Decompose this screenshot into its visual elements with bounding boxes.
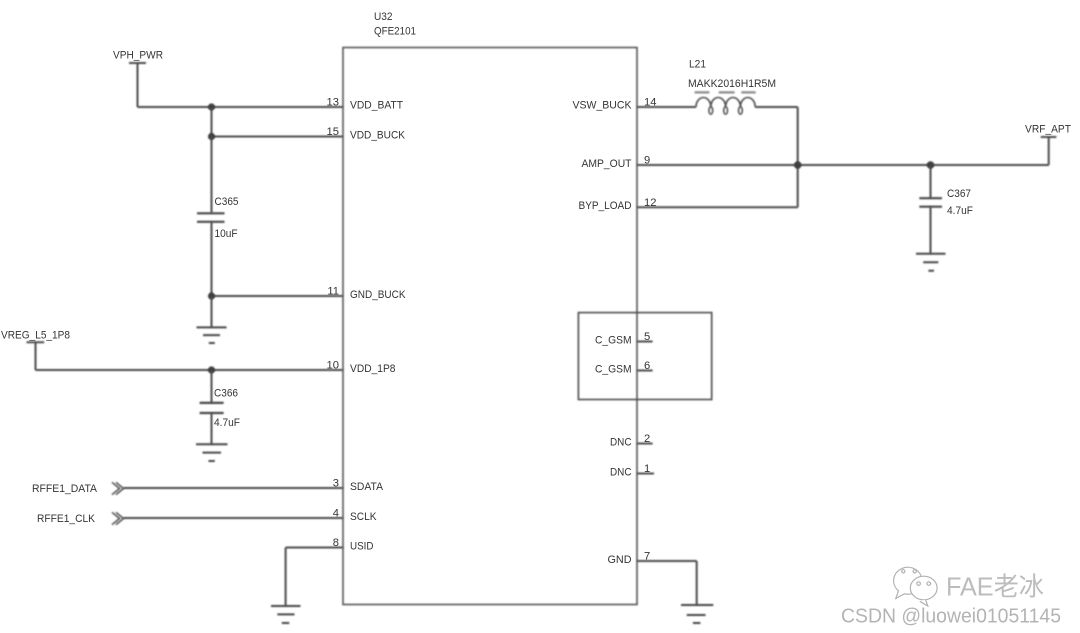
wire RFFE1_CLK to pin 4 SCLK	[124, 517, 344, 519]
wire RFFE1_DATA to pin 3 SDATA	[124, 487, 344, 489]
svg-text:9: 9	[644, 155, 650, 167]
wire pin 8 USID to ground	[286, 548, 343, 607]
svg-text:U32: U32	[374, 11, 393, 23]
svg-text:C367: C367	[947, 188, 971, 200]
capacitor C367	[919, 188, 973, 217]
wire pin 12 BYP_LOAD	[637, 206, 798, 208]
svg-text:USID: USID	[350, 541, 374, 553]
ground below C367	[916, 254, 946, 271]
pin number 5	[644, 331, 650, 343]
power flag VPH_PWR	[113, 50, 163, 108]
pin number 4	[333, 508, 339, 520]
pin name GND	[608, 554, 632, 566]
svg-text:C365: C365	[215, 196, 239, 208]
svg-text:VSW_BUCK: VSW_BUCK	[573, 100, 632, 112]
pin name VDD_BATT	[350, 100, 403, 112]
svg-text:15: 15	[327, 126, 339, 138]
C_GSM group box	[578, 313, 711, 400]
svg-text:MAKK2016H1R5M: MAKK2016H1R5M	[688, 78, 776, 90]
pin 6 C_GSM stub	[637, 370, 653, 372]
wire C365 to pin 11 GND_BUCK	[212, 222, 344, 296]
capacitor C365	[197, 196, 239, 240]
pin number 10	[327, 360, 339, 372]
capacitor C366	[200, 388, 241, 430]
wire pin 7 GND to ground	[637, 561, 697, 605]
pin name C_GSM pin6	[595, 364, 632, 376]
pin number 12	[644, 197, 656, 209]
svg-text:VDD_BUCK: VDD_BUCK	[350, 130, 405, 142]
pin number 15	[327, 126, 339, 138]
svg-text:2: 2	[644, 433, 650, 445]
svg-text:DNC: DNC	[610, 437, 632, 449]
svg-text:DNC: DNC	[610, 467, 632, 479]
svg-text:7: 7	[644, 551, 650, 563]
pin name GND_BUCK	[350, 289, 406, 301]
svg-text:AMP_OUT: AMP_OUT	[582, 158, 632, 170]
junction dot AMP_OUT / inductor	[794, 161, 802, 169]
pin name VDD_1P8	[350, 363, 396, 375]
svg-text:VDD_BATT: VDD_BATT	[350, 100, 403, 112]
net arrow RFFE1_DATA	[32, 482, 124, 495]
wire VPH_PWR to pin 13	[138, 106, 344, 108]
pin number 9	[644, 155, 650, 167]
power flag VRF_APT	[1025, 124, 1071, 166]
wire junction down to capacitor C366	[211, 370, 213, 403]
svg-text:12: 12	[644, 197, 656, 209]
svg-text:VPH_PWR: VPH_PWR	[113, 50, 163, 62]
wire C366 to ground	[211, 413, 213, 444]
wire VDD_BUCK down to capacitor C365	[211, 137, 213, 214]
watermark wechat icon	[894, 567, 937, 606]
junction dot AMP_OUT / C367	[927, 161, 935, 169]
ground below C366	[196, 444, 228, 461]
svg-text:CSDN @luowei01051145: CSDN @luowei01051145	[841, 605, 1061, 628]
svg-text:4.7uF: 4.7uF	[947, 205, 973, 217]
svg-text:VDD_1P8: VDD_1P8	[350, 363, 396, 375]
svg-text:5: 5	[644, 331, 650, 343]
pin 5 C_GSM stub	[637, 341, 653, 343]
pin number 3	[333, 478, 339, 490]
svg-text:1: 1	[644, 463, 650, 475]
pin name VSW_BUCK	[573, 100, 632, 112]
pin name BYP_LOAD	[579, 200, 632, 212]
pin number 14	[644, 97, 656, 109]
junction dot at GND_BUCK tap	[208, 292, 215, 299]
wire to pin 15 VDD_BUCK	[212, 107, 344, 137]
wire AMP_OUT down to capacitor C367	[930, 165, 932, 198]
svg-text:8: 8	[333, 537, 339, 549]
svg-text:BYP_LOAD: BYP_LOAD	[579, 200, 632, 212]
junction dot at VDD_BUCK tap	[208, 133, 215, 140]
svg-text:C_GSM: C_GSM	[595, 364, 632, 376]
svg-text:3: 3	[333, 478, 339, 490]
ground below GND pin	[681, 605, 713, 623]
svg-text:RFFE1_DATA: RFFE1_DATA	[32, 483, 97, 495]
ground below C365	[197, 327, 227, 343]
wire inductor to corner	[755, 107, 798, 207]
svg-text:SCLK: SCLK	[350, 511, 377, 523]
svg-text:13: 13	[327, 97, 339, 109]
pin name C_GSM pin5	[595, 335, 632, 347]
svg-text:FAE老冰: FAE老冰	[946, 572, 1044, 602]
svg-text:QFE2101: QFE2101	[374, 26, 416, 38]
pin number 13	[327, 97, 339, 109]
svg-text:14: 14	[644, 97, 656, 109]
pin 2 DNC stub	[637, 443, 653, 445]
wire C367 to ground	[930, 207, 932, 254]
wire VREG_L5_1P8 to pin 10 VDD_1P8	[36, 369, 344, 371]
pin name USID	[350, 541, 374, 553]
svg-text:10uF: 10uF	[215, 228, 238, 240]
svg-text:L21: L21	[689, 59, 706, 71]
svg-text:VRF_APT: VRF_APT	[1025, 124, 1071, 136]
svg-text:10: 10	[327, 360, 339, 372]
svg-text:4: 4	[333, 508, 339, 520]
pin name SDATA	[350, 481, 383, 493]
QFE2101 part value label	[374, 26, 416, 38]
svg-text:SDATA: SDATA	[350, 481, 383, 493]
pin number 6	[644, 360, 650, 372]
wire pin 14 VSW_BUCK to inductor	[637, 106, 696, 108]
ground below USID	[271, 606, 301, 623]
net arrow RFFE1_CLK	[37, 512, 124, 525]
svg-text:4.7uF: 4.7uF	[214, 417, 240, 429]
pin number 11	[327, 286, 339, 298]
svg-text:VREG_L5_1P8: VREG_L5_1P8	[1, 330, 70, 342]
pin number 7	[644, 551, 650, 563]
inductor L21	[688, 59, 776, 115]
svg-text:GND_BUCK: GND_BUCK	[350, 289, 406, 301]
pin 1 DNC stub	[637, 473, 654, 475]
pin name DNC pin1	[610, 467, 632, 479]
svg-text:6: 6	[644, 360, 650, 372]
pin number 1	[644, 463, 650, 475]
svg-text:RFFE1_CLK: RFFE1_CLK	[37, 513, 95, 525]
pin name DNC pin2	[610, 437, 632, 449]
power flag VREG_L5_1P8	[1, 330, 70, 371]
pin name AMP_OUT	[582, 158, 632, 170]
pin number 8	[333, 537, 339, 549]
pin name SCLK	[350, 511, 377, 523]
junction dot at VDD_1P8 tap	[208, 366, 215, 373]
wire pin 9 AMP_OUT to VRF_APT	[637, 164, 1049, 166]
svg-text:C366: C366	[214, 388, 238, 400]
svg-text:GND: GND	[608, 554, 632, 566]
watermark text CSDN @luowei01051145	[841, 605, 1063, 630]
junction dot at VDD_BATT tap	[208, 103, 215, 110]
op-amp U32 QFE2101 IC body	[343, 48, 637, 605]
pin number 2	[644, 433, 650, 445]
U32 reference designator label	[374, 11, 393, 23]
watermark text FAE老冰	[946, 572, 1046, 604]
svg-text:C_GSM: C_GSM	[595, 335, 632, 347]
pin name VDD_BUCK	[350, 130, 405, 142]
svg-text:11: 11	[327, 286, 339, 298]
wire junction down to ground	[211, 296, 213, 327]
